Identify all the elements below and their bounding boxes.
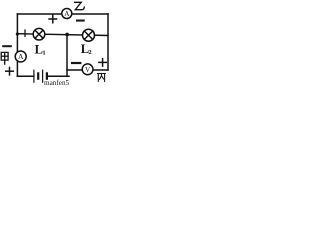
battery cells [34, 70, 47, 83]
wire left vertical branch [16, 14, 18, 76]
lamp L2 [83, 29, 95, 41]
svg-text:V: V [85, 66, 91, 74]
svg-text:A: A [18, 52, 24, 61]
label bing (Chinese) [97, 74, 106, 82]
voltmeter U_bing plus label [98, 58, 107, 67]
voltmeter U_bing minus label [71, 62, 81, 64]
wire middle branch [17, 34, 108, 36]
wire bottom battery branch right [47, 75, 69, 77]
switch bar on middle wire [24, 29, 26, 37]
node junction dot left [16, 32, 19, 35]
svg-text:2: 2 [88, 49, 91, 56]
ammeter U_jia minus label [2, 45, 12, 47]
voltmeter U_bing circle [82, 64, 93, 75]
ammeter U_jia circle [15, 51, 26, 62]
svg-text:A: A [64, 10, 70, 18]
ammeter U_yi circle [62, 9, 72, 19]
wire voltmeter branch [67, 69, 108, 71]
ammeter U_jia plus label [5, 67, 14, 76]
label yi (Chinese) [74, 2, 84, 9]
lamp L1 [33, 28, 45, 40]
label jia (Chinese) [1, 52, 8, 64]
ammeter U_yi minus label [76, 20, 85, 22]
wire top branch [17, 13, 108, 15]
node junction dot middle [65, 33, 69, 37]
ammeter U_yi plus label [48, 15, 57, 24]
wire middle vertical branch [66, 35, 68, 77]
wire right vertical branch [107, 14, 109, 70]
wire bottom battery branch left [17, 75, 34, 77]
svg-text:1: 1 [42, 49, 45, 56]
svg-text:manfen5: manfen5 [44, 79, 70, 86]
